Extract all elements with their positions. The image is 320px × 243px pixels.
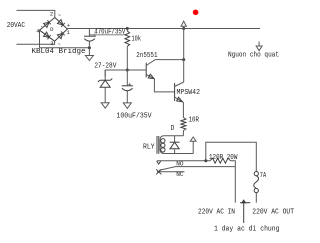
- svg-text:3: 3: [50, 40, 53, 47]
- relay coil loops: [161, 139, 165, 143]
- svg-text:220V AC OUT: 220V AC OUT: [252, 209, 294, 217]
- svg-text:27-28V: 27-28V: [94, 62, 117, 70]
- svg-text:1: 1: [67, 29, 71, 36]
- diode bridge upper-right: [58, 20, 63, 25]
- wire Q2 emitter: [182, 102, 184, 117]
- contact common arrow V: [157, 161, 161, 164]
- resistor R3 120R: [210, 158, 231, 163]
- resistor R1 10k: [125, 31, 130, 46]
- svg-text:KBL04 Bridge: KBL04 Bridge: [32, 48, 86, 56]
- relay core bars: [157, 136, 159, 154]
- svg-text:1 day ac di chung: 1 day ac di chung: [214, 225, 280, 233]
- wire node to zener: [105, 70, 127, 76]
- svg-text:RLY: RLY: [143, 144, 155, 152]
- junction dot base node: [126, 69, 129, 72]
- svg-text:2: 2: [50, 11, 53, 18]
- capacitor C1 bottom stub: [88, 41, 90, 48]
- annotation arrow day: [240, 202, 250, 204]
- bridge rectifier D KBL04 diamond: [40, 18, 68, 42]
- wire ground rail: [40, 47, 90, 49]
- junction dot collectors: [182, 58, 185, 61]
- svg-text:+: +: [128, 81, 132, 88]
- svg-text:7A: 7A: [260, 172, 267, 180]
- svg-text:2n5551: 2n5551: [136, 52, 157, 60]
- svg-text:20VAC: 20VAC: [7, 22, 25, 30]
- wire 20VAC bottom: [17, 41, 55, 44]
- svg-text:NC: NC: [176, 171, 183, 178]
- svg-text:10k: 10k: [132, 36, 142, 44]
- junction dot collector tap: [182, 27, 185, 30]
- junction dot 10k tap: [126, 27, 129, 30]
- wire Q1 emitter to Q2 base: [154, 79, 174, 92]
- ground symbol G2: [101, 103, 109, 109]
- junction dot cap1 gnd: [88, 46, 91, 49]
- zener diode 27-28V: [104, 70, 106, 80]
- wire Q1 base: [127, 69, 146, 71]
- wire bridge minus drop: [39, 30, 41, 48]
- contact arrow X: [156, 169, 161, 174]
- contact lever: [159, 167, 235, 171]
- transistor Q1 2n5551: [145, 63, 147, 78]
- svg-text:D: D: [50, 26, 54, 33]
- ground symbol G1: [88, 48, 90, 56]
- ground symbol G3: [123, 103, 131, 109]
- red marker dot: [193, 10, 199, 16]
- wire NO to ac-in vertical: [231, 161, 236, 203]
- svg-text:-: -: [40, 22, 43, 29]
- svg-text:10R: 10R: [189, 117, 200, 125]
- arrow down nguon: [258, 42, 260, 47]
- junction dot NO node: [204, 159, 207, 162]
- svg-text:~: ~: [57, 41, 61, 48]
- diode bridge lower-left: [44, 32, 50, 37]
- capacitor C2 100uF: [126, 70, 128, 86]
- svg-text:470uF/35V: 470uF/35V: [94, 29, 126, 37]
- contact NO line: [157, 160, 210, 162]
- transistor Q2 MPSW42: [174, 83, 176, 101]
- arrow up relay right: [190, 137, 196, 141]
- diode D flyback: [174, 136, 176, 142]
- wire collector vertical: [183, 29, 185, 83]
- capacitor C1 curved plate: [84, 39, 95, 42]
- relay RLY coil outline: [160, 136, 193, 154]
- wire 20VAC top: [17, 10, 55, 17]
- svg-text:~: ~: [58, 12, 62, 19]
- svg-text:220V AC IN: 220V AC IN: [198, 209, 235, 217]
- wire top rail: [67, 28, 260, 30]
- diode bridge upper-left: [44, 22, 50, 27]
- svg-text:D: D: [171, 125, 175, 133]
- power arrow up at rail: [183, 26, 185, 28]
- fuse F 7A: [254, 172, 258, 176]
- capacitor C1 stub: [88, 29, 90, 37]
- wire bypass loop: [206, 142, 256, 171]
- svg-text:Nguon cho quat: Nguon cho quat: [228, 52, 279, 60]
- svg-text:100uF/35V: 100uF/35V: [117, 113, 153, 121]
- svg-text:MPSW42: MPSW42: [177, 89, 201, 97]
- contact NC line: [157, 171, 185, 173]
- capacitor C1 top plate: [84, 35, 96, 37]
- diode bridge lower-right: [57, 33, 62, 38]
- resistor R2 10R: [181, 118, 186, 131]
